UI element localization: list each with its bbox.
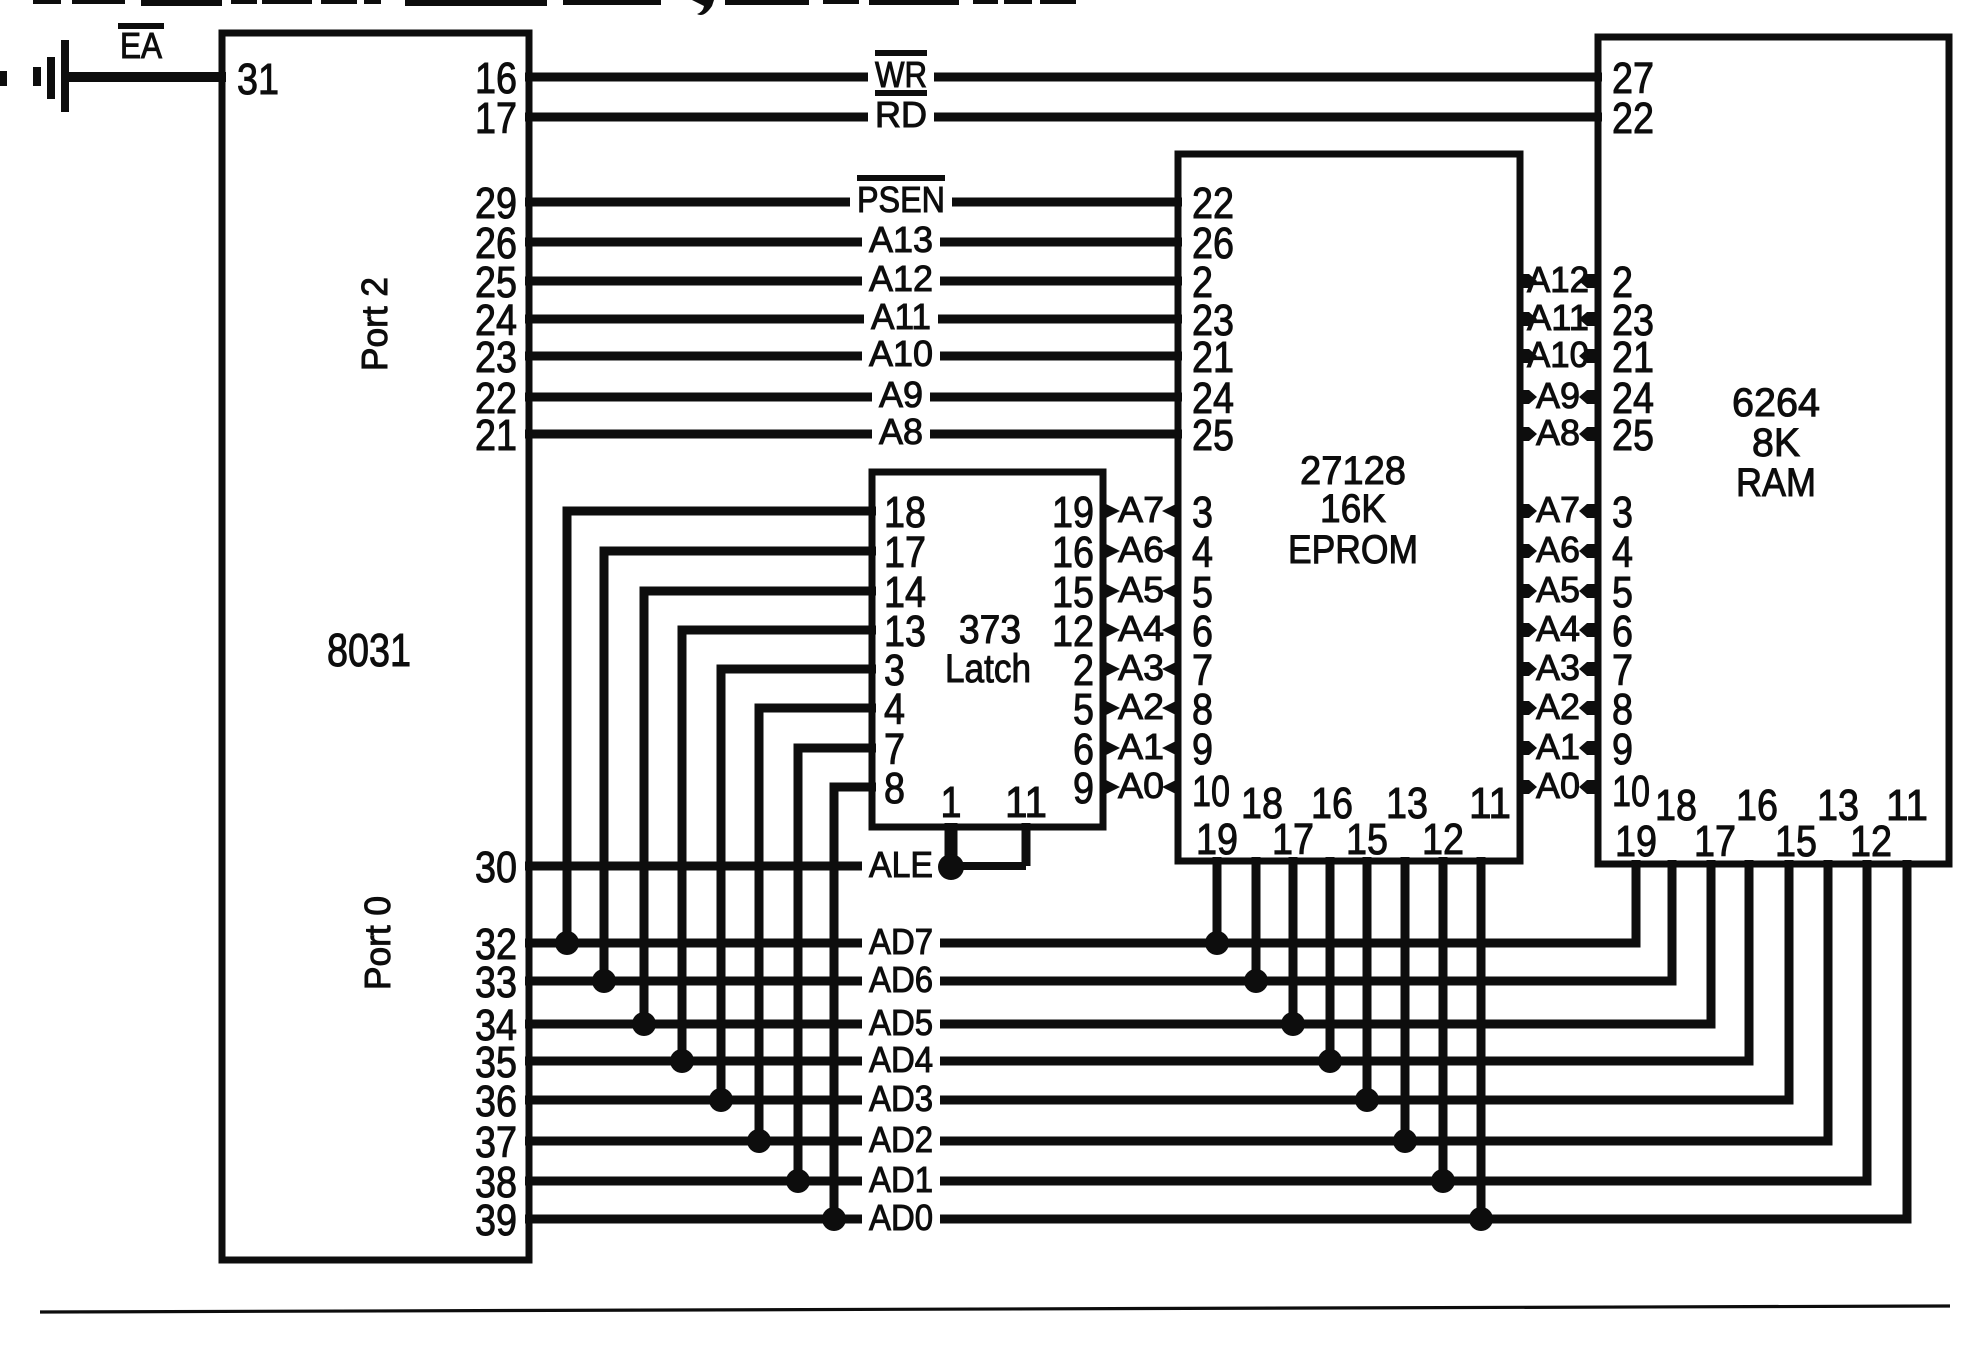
junction AD6/EPROM drop [1244, 969, 1268, 993]
wire PSEN: 8031 to EPROM [525, 198, 1182, 207]
svg-text:ALE: ALE [869, 844, 933, 885]
U2 pin 12 (Q output) [1052, 607, 1094, 656]
net label AD2 [869, 1119, 933, 1160]
svg-text:A8: A8 [1536, 412, 1580, 453]
U1 pin 23 (A10) [475, 333, 517, 382]
U3 pin 25 [1192, 411, 1234, 460]
U3 pin 6 [1192, 607, 1213, 656]
svg-text:15: 15 [1775, 817, 1817, 866]
U1 pin 32 (AD7) [475, 920, 517, 969]
svg-text:A9: A9 [879, 374, 923, 415]
net label ALE [869, 844, 933, 885]
net label A13 [869, 219, 933, 260]
node A1: latch to EPROM connector [1100, 741, 1181, 755]
U4 pin 17 (data) [1694, 817, 1736, 866]
svg-text:33: 33 [475, 958, 517, 1007]
junction AD5/latch riser [632, 1012, 656, 1036]
junction AD1/EPROM drop [1431, 1169, 1455, 1193]
svg-text:17: 17 [1272, 815, 1314, 864]
svg-text:A3: A3 [1118, 647, 1164, 688]
net label A0 (latch-EPROM) [1118, 765, 1164, 806]
svg-text:AD7: AD7 [869, 921, 933, 962]
junction AD7/EPROM drop [1205, 931, 1229, 955]
junction AD3/latch riser [709, 1088, 733, 1112]
net label A2 (latch-EPROM) [1118, 686, 1164, 727]
U2 label Latch [945, 647, 1031, 691]
net label A8 [879, 411, 923, 452]
node A0: EPROM to RAM connector [1517, 780, 1601, 794]
net label A7 (latch-EPROM) [1118, 489, 1164, 530]
U2 pin 8 (D input) [884, 764, 905, 813]
svg-text:EA: EA [120, 25, 162, 66]
U1 label Port 2 (rotated) [354, 277, 395, 371]
wire EPROM data drop pin to AD2 [1401, 857, 1410, 1141]
U3 pin 19 (data) [1196, 815, 1238, 864]
net label A12 (EPROM-RAM) [1527, 259, 1589, 300]
horizontal rule (page footer) [40, 1306, 1950, 1312]
U3 pin 10 [1192, 767, 1230, 816]
net label A4 (latch-EPROM) [1118, 608, 1164, 649]
node A9: EPROM to RAM connector [1517, 390, 1601, 404]
svg-text:A11: A11 [871, 296, 931, 337]
U4 pin 15 (data) [1775, 817, 1817, 866]
U2 pin 9 (Q output) [1073, 764, 1094, 813]
U1 pin 35 (AD4) [475, 1038, 517, 1087]
junction AD2/EPROM drop [1393, 1129, 1417, 1153]
node A5: latch to EPROM connector [1100, 584, 1181, 598]
wire AD6: 8031 pin 33 to latch/EPROM/RAM [525, 860, 1672, 981]
net label A7 (EPROM-RAM) [1536, 489, 1580, 530]
U2 pin 19 (Q output) [1052, 488, 1094, 537]
svg-text:A5: A5 [1536, 569, 1580, 610]
svg-text:A1: A1 [1536, 726, 1580, 767]
wire AD0: 8031 pin 39 to latch/EPROM/RAM [525, 860, 1907, 1219]
U1 pin 38 (AD1) [475, 1158, 517, 1207]
svg-text:AD1: AD1 [869, 1159, 933, 1200]
svg-text:A7: A7 [1536, 489, 1580, 530]
wire riser AD5 to latch pin 14 [644, 591, 876, 1024]
svg-text:A7: A7 [1118, 489, 1164, 530]
wire EPROM data drop pin to AD4 [1326, 857, 1335, 1061]
svg-text:PSEN: PSEN [857, 179, 945, 220]
U3 pin 26 [1192, 219, 1234, 268]
U3 pin 5 [1192, 568, 1213, 617]
node A6: EPROM to RAM connector [1517, 544, 1601, 558]
U4 pin 6 [1612, 607, 1633, 656]
svg-text:8K: 8K [1752, 421, 1800, 465]
svg-text:15: 15 [1346, 815, 1388, 864]
U2 pin 18 (D input) [884, 488, 926, 537]
net label A10 [869, 333, 933, 374]
junction AD6/latch riser [592, 969, 616, 993]
net label A12 [869, 258, 933, 299]
U3 pin 12 (data) [1422, 815, 1464, 864]
svg-text:1: 1 [941, 778, 962, 827]
U4 pin 7 [1612, 646, 1633, 695]
U4 pin 24 [1612, 374, 1654, 423]
node A5: EPROM to RAM connector [1517, 584, 1601, 598]
junction AD3/EPROM drop [1355, 1088, 1379, 1112]
U3 pin 18 (data) [1241, 779, 1283, 828]
node A11: EPROM to RAM connector [1517, 312, 1601, 326]
node A4: EPROM to RAM connector [1517, 623, 1601, 637]
U2 pin 2 (Q output) [1073, 646, 1094, 695]
net label A8 (EPROM-RAM) [1536, 412, 1580, 453]
svg-text:6264: 6264 [1732, 381, 1820, 425]
net label A2 (EPROM-RAM) [1536, 686, 1580, 727]
junction ALE/latch pin 1 [938, 854, 964, 880]
U2 pin 6 (Q output) [1073, 725, 1094, 774]
net label AD3 [869, 1078, 933, 1119]
svg-text:A12: A12 [869, 258, 933, 299]
net label AD0 [869, 1197, 933, 1238]
wire WR: 8031 to RAM [525, 73, 1602, 82]
svg-text:A6: A6 [1118, 529, 1164, 570]
U4 pin 16 (data) [1736, 781, 1778, 830]
net label PSEN [857, 178, 945, 220]
wire ALE: 8031 pin 30 to latch enable [525, 862, 960, 871]
junction AD2/latch riser [747, 1129, 771, 1153]
U4 label RAM [1736, 461, 1816, 505]
U2 pin 15 (Q output) [1052, 568, 1094, 617]
U4 pin 8 [1612, 685, 1633, 734]
U4 pin 22 [1612, 94, 1654, 143]
node A6: latch to EPROM connector [1100, 544, 1181, 558]
U1 label Port 0 (rotated) [357, 896, 398, 990]
EPROM U3 27128 box [1178, 154, 1520, 861]
U2 pin 13 (D input) [884, 607, 926, 656]
node A0: latch to EPROM connector [1100, 780, 1181, 794]
svg-text:11: 11 [1005, 778, 1047, 827]
U3 pin 2 [1192, 258, 1213, 307]
wire AD1: 8031 pin 38 to latch/EPROM/RAM [525, 860, 1867, 1181]
svg-text:Port 2: Port 2 [354, 277, 395, 371]
U1 pin 17 (RD) [475, 94, 517, 143]
U3 pin 16 (data) [1311, 779, 1353, 828]
svg-text:A2: A2 [1536, 686, 1580, 727]
net label A1 (EPROM-RAM) [1536, 726, 1580, 767]
net label RD [875, 93, 927, 135]
U1 pin 25 (A12) [475, 258, 517, 307]
wire EPROM data drop pin to AD7 [1213, 857, 1222, 943]
svg-text:17: 17 [475, 94, 517, 143]
junction AD7/latch riser [555, 931, 579, 955]
net label A6 (latch-EPROM) [1118, 529, 1164, 570]
net label A9 [879, 374, 923, 415]
junction AD0/latch riser [822, 1207, 846, 1231]
net label A1 (latch-EPROM) [1118, 726, 1164, 767]
svg-text:10: 10 [1192, 767, 1230, 816]
net label A5 (latch-EPROM) [1118, 569, 1164, 610]
U4 pin 23 [1612, 296, 1654, 345]
RAM U4 6264 box [1598, 37, 1949, 864]
U2 pin 14 (D input) [884, 568, 926, 617]
wire A8: 8031 to EPROM [525, 430, 1182, 439]
node A8: EPROM to RAM connector [1517, 427, 1601, 441]
svg-text:A11: A11 [1527, 297, 1589, 338]
svg-text:A3: A3 [1536, 647, 1580, 688]
U1 pin 24 (A11) [475, 296, 517, 345]
scan mark (left page edge) [0, 71, 7, 86]
node A7: latch to EPROM connector [1100, 504, 1181, 518]
wire riser AD1 to latch pin 7 [798, 748, 876, 1181]
wire AD4: 8031 pin 35 to latch/EPROM/RAM [525, 860, 1749, 1061]
U4 pin 18 (data) [1655, 781, 1697, 830]
svg-text:10: 10 [1612, 767, 1650, 816]
U3 label 27128 [1300, 449, 1406, 493]
wire riser AD6 to latch pin 17 [604, 551, 876, 981]
net label A10 (EPROM-RAM) [1527, 334, 1589, 375]
svg-text:A10: A10 [1527, 334, 1589, 375]
U1 label 8031 [327, 624, 411, 676]
U4 label 6264 [1732, 381, 1820, 425]
U1 pin 37 (AD2) [475, 1118, 517, 1167]
svg-text:AD3: AD3 [869, 1078, 933, 1119]
U2 pin 16 (Q output) [1052, 528, 1094, 577]
svg-text:AD5: AD5 [869, 1002, 933, 1043]
U1 pin 21 (A8) [475, 411, 517, 460]
U2 pin 17 (D input) [884, 528, 926, 577]
svg-text:A2: A2 [1118, 686, 1164, 727]
net label WR [875, 53, 927, 95]
U4 pin 19 (data) [1615, 817, 1657, 866]
U4 pin 9 [1612, 725, 1633, 774]
wire A10: 8031 to EPROM [525, 352, 1182, 361]
wire AD2: 8031 pin 37 to latch/EPROM/RAM [525, 860, 1828, 1141]
wire A12: 8031 to EPROM [525, 277, 1182, 286]
U4 pin 12 (data) [1850, 817, 1892, 866]
wire riser AD7 to latch pin 18 [567, 511, 876, 943]
svg-text:16: 16 [1736, 781, 1778, 830]
node A12: EPROM to RAM connector [1517, 274, 1601, 288]
svg-text:A13: A13 [869, 219, 933, 260]
svg-text:AD4: AD4 [869, 1039, 933, 1080]
U3 label EPROM [1288, 528, 1418, 572]
U4 pin 5 [1612, 568, 1633, 617]
U3 label 16K [1320, 487, 1386, 531]
wire riser AD4 to latch pin 13 [682, 630, 876, 1061]
svg-text:A4: A4 [1118, 608, 1164, 649]
U1 pin 36 (AD3) [475, 1077, 517, 1126]
svg-text:A9: A9 [1536, 375, 1580, 416]
node A2: EPROM to RAM connector [1517, 701, 1601, 715]
net label AD7 [869, 921, 933, 962]
U1 pin 33 (AD6) [475, 958, 517, 1007]
U1 pin 39 (AD0) [475, 1196, 517, 1245]
svg-text:11: 11 [1886, 781, 1928, 830]
svg-text:EPROM: EPROM [1288, 528, 1418, 572]
svg-text:A5: A5 [1118, 569, 1164, 610]
node A3: latch to EPROM connector [1100, 662, 1181, 676]
U4 pin 13 (data) [1817, 781, 1859, 830]
wire A13: 8031 to EPROM [525, 238, 1182, 247]
svg-text:25: 25 [1192, 411, 1234, 460]
svg-text:A1: A1 [1118, 726, 1164, 767]
U3 pin 24 [1192, 374, 1234, 423]
U3 pin 22 [1192, 179, 1234, 228]
wire RD: 8031 to RAM [525, 113, 1602, 122]
svg-text:30: 30 [475, 843, 517, 892]
net label AD1 [869, 1159, 933, 1200]
U4 pin 2 [1612, 258, 1633, 307]
svg-text:Port 0: Port 0 [357, 896, 398, 990]
svg-text:A0: A0 [1536, 765, 1580, 806]
U3 pin 8 [1192, 685, 1213, 734]
U2 pin 3 (D input) [884, 646, 905, 695]
wire A9: 8031 to EPROM [525, 393, 1182, 402]
svg-text:A12: A12 [1527, 259, 1589, 300]
net label A11 [871, 296, 931, 337]
U3 pin 7 [1192, 646, 1213, 695]
U4 pin 21 [1612, 333, 1654, 382]
svg-text:A4: A4 [1536, 608, 1580, 649]
net label A0 (EPROM-RAM) [1536, 765, 1580, 806]
net label A11 (EPROM-RAM) [1527, 297, 1589, 338]
svg-text:AD6: AD6 [869, 959, 933, 1000]
svg-text:22: 22 [1612, 94, 1654, 143]
U1 pin 30 (ALE) [475, 843, 517, 892]
svg-text:RD: RD [875, 94, 927, 135]
U1 pin 26 (A13) [475, 219, 517, 268]
svg-text:9: 9 [1073, 764, 1094, 813]
U2 pin 7 (D input) [884, 725, 905, 774]
svg-text:373: 373 [959, 608, 1021, 652]
U1 pin 22 (A9) [475, 374, 517, 423]
U2 pin 11 (LE) [1005, 778, 1047, 827]
svg-text:12: 12 [1422, 815, 1464, 864]
wire EPROM data drop pin to AD0 [1477, 857, 1486, 1219]
node A10: EPROM to RAM connector [1517, 349, 1601, 363]
net label A6 (EPROM-RAM) [1536, 529, 1580, 570]
net label A3 (latch-EPROM) [1118, 647, 1164, 688]
node A3: EPROM to RAM connector [1517, 662, 1601, 676]
U3 pin 11 (data) [1469, 779, 1511, 828]
U4 pin 25 [1612, 411, 1654, 460]
svg-text:21: 21 [475, 411, 517, 460]
svg-text:A0: A0 [1118, 765, 1164, 806]
U4 pin 11 (data) [1886, 781, 1928, 830]
wire EPROM data drop pin to AD6 [1252, 857, 1261, 981]
wire AD7: 8031 pin 32 to latch/EPROM/RAM [525, 860, 1636, 943]
svg-text:A10: A10 [869, 333, 933, 374]
svg-text:AD0: AD0 [869, 1197, 933, 1238]
wire AD3: 8031 pin 36 to latch/EPROM/RAM [525, 860, 1789, 1100]
svg-text:17: 17 [1694, 817, 1736, 866]
svg-text:Latch: Latch [945, 647, 1031, 691]
wire EPROM data drop pin to AD5 [1289, 857, 1298, 1024]
U3 pin 4 [1192, 528, 1213, 577]
wire latch pins 1,11 to ALE (U link) [947, 823, 1026, 866]
svg-text:RAM: RAM [1736, 461, 1816, 505]
U3 pin 9 [1192, 725, 1213, 774]
wire riser AD0 to latch pin 8 [834, 787, 876, 1219]
U2 pin 5 (Q output) [1073, 685, 1094, 734]
net label A5 (EPROM-RAM) [1536, 569, 1580, 610]
U3 pin 3 [1192, 488, 1213, 537]
U4 pin 27 [1612, 54, 1654, 103]
svg-text:18: 18 [1655, 781, 1697, 830]
svg-text:39: 39 [475, 1196, 517, 1245]
svg-text:A8: A8 [879, 411, 923, 452]
U4 pin 10 [1612, 767, 1650, 816]
net label A4 (EPROM-RAM) [1536, 608, 1580, 649]
net label EA (active low) [118, 25, 164, 66]
svg-text:WR: WR [875, 54, 927, 95]
U3 pin 23 [1192, 296, 1234, 345]
junction AD1/latch riser [786, 1169, 810, 1193]
node A4: latch to EPROM connector [1100, 623, 1181, 637]
U2 pin 1 (OE) [941, 778, 962, 827]
svg-text:AD2: AD2 [869, 1119, 933, 1160]
U2 label 373 [959, 608, 1021, 652]
svg-text:A6: A6 [1536, 529, 1580, 570]
node A2: latch to EPROM connector [1100, 701, 1181, 715]
svg-text:12: 12 [1850, 817, 1892, 866]
wire EPROM data drop pin to AD3 [1363, 857, 1372, 1100]
wire riser AD2 to latch pin 4 [759, 708, 876, 1141]
junction AD5/EPROM drop [1281, 1012, 1305, 1036]
net label AD6 [869, 959, 933, 1000]
U1 pin 34 (AD5) [475, 1001, 517, 1050]
net label A3 (EPROM-RAM) [1536, 647, 1580, 688]
U1 pin 29 (PSEN) [475, 179, 517, 228]
net label AD5 [869, 1002, 933, 1043]
svg-text:11: 11 [1469, 779, 1511, 828]
U2 pin 4 (D input) [884, 685, 905, 734]
junction AD4/EPROM drop [1318, 1049, 1342, 1073]
wire riser AD3 to latch pin 3 [721, 669, 876, 1100]
node A1: EPROM to RAM connector [1517, 741, 1601, 755]
U4 pin 4 [1612, 528, 1633, 577]
wire EPROM data drop pin to AD1 [1439, 857, 1448, 1181]
U1 pin 16 (WR) [475, 54, 517, 103]
ground (earth) symbol [33, 40, 69, 112]
junction AD0/EPROM drop [1469, 1207, 1493, 1231]
svg-text:19: 19 [1615, 817, 1657, 866]
U4 label 8K [1752, 421, 1800, 465]
U1 pin 31 (EA) [237, 55, 279, 104]
svg-text:8: 8 [884, 764, 905, 813]
U3 pin 13 (data) [1386, 779, 1428, 828]
node A7: EPROM to RAM connector [1517, 504, 1601, 518]
svg-text:8031: 8031 [327, 624, 411, 676]
svg-text:19: 19 [1196, 815, 1238, 864]
junction AD4/latch riser [670, 1049, 694, 1073]
U3 pin 21 [1192, 333, 1234, 382]
latch U2 74LS373 box [872, 472, 1103, 827]
wire AD5: 8031 pin 34 to latch/EPROM/RAM [525, 860, 1711, 1024]
net label AD4 [869, 1039, 933, 1080]
cropped caption text fragments (top edge) [33, 0, 1076, 15]
U3 pin 17 (data) [1272, 815, 1314, 864]
U4 pin 3 [1612, 488, 1633, 537]
svg-text:25: 25 [1612, 411, 1654, 460]
wire A11: 8031 to EPROM [525, 315, 1182, 324]
svg-text:16K: 16K [1320, 487, 1386, 531]
wire EA: ground to 8031 pin 31 [65, 72, 226, 82]
microcontroller U1 8031 box [222, 33, 529, 1260]
net label A9 (EPROM-RAM) [1536, 375, 1580, 416]
U3 pin 15 (data) [1346, 815, 1388, 864]
svg-text:31: 31 [237, 55, 279, 104]
